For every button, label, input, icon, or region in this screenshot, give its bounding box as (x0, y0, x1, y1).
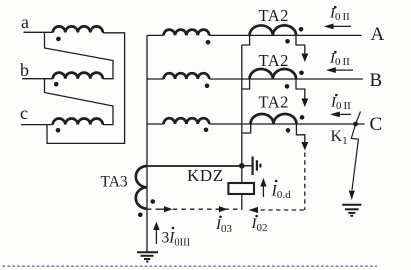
polarity dot winding C (204, 128, 209, 133)
ground TA3 neutral (137, 251, 158, 253)
wire phase b input (22, 78, 53, 80)
wire star stub B (147, 78, 164, 80)
wire KDZ top lead (241, 166, 243, 182)
polarity dot TA3 secondary (138, 213, 143, 218)
wire dashed right bus down (304, 153, 306, 211)
svg-text:C: C (370, 114, 383, 135)
wire delta link c to winding a right end (47, 33, 125, 144)
dot above I0II-A (334, 6, 337, 9)
svg-text:I0II: I0II (329, 51, 350, 69)
dot above 3I0III I (172, 227, 175, 230)
polarity dot winding c (56, 128, 61, 133)
page separator dotted line (3, 265, 378, 267)
CT TA2 phase B primary (250, 69, 297, 79)
wire phase a input (24, 31, 53, 33)
polarity dot winding B (205, 84, 210, 89)
wire line A (209, 34, 361, 36)
wire delta link a to winding b right end (45, 32, 114, 78)
polarity dot winding a (56, 37, 61, 42)
wire line C (209, 123, 364, 125)
node K1 fault dot on line C (353, 122, 358, 127)
wire TA2-C secondary right stub (296, 124, 304, 143)
winding A (star) (164, 30, 210, 36)
wire TA2 secondary left bus (241, 45, 243, 166)
arrow I0II-B left (334, 69, 353, 71)
arrow I0.d up beside KDZ (262, 186, 264, 198)
relay KDZ coil rectangle (228, 183, 254, 194)
wire TA2-B secondary left (242, 79, 250, 89)
wire dashed TA3 to KDZ (i03 path) (147, 208, 241, 210)
wire line B (209, 78, 363, 80)
dot above i02 I (255, 215, 258, 218)
wire star neutral vertical (146, 35, 148, 252)
wire star stub C (147, 123, 164, 125)
wire KDZ bottom lead (241, 195, 243, 211)
dot above i03 I (219, 216, 222, 219)
svg-text:TA2: TA2 (259, 51, 289, 70)
arrow I0II-A left (332, 25, 351, 27)
wire delta link b to winding c right end (45, 79, 114, 125)
polarity dot TA2-C secondary (286, 128, 291, 133)
svg-text:b: b (20, 60, 29, 80)
arrow i03 current right near TA3 (160, 208, 166, 210)
svg-text:I0.d: I0.d (271, 183, 292, 202)
wire K1 fault path to ground (351, 124, 358, 190)
polarity dot TA2-B secondary (285, 84, 290, 89)
arrow 3I0III up (155, 229, 157, 244)
winding c (delta) (53, 119, 103, 125)
svg-text:B: B (370, 70, 383, 91)
winding a (delta) (53, 26, 103, 32)
junction dot KDZ top (239, 163, 245, 169)
wire TA2-A secondary right stub (296, 35, 305, 54)
ground sideways at KDZ top (244, 165, 252, 167)
wire phase c input (21, 124, 53, 126)
wire K1 blade above line (356, 112, 361, 125)
svg-text:I03: I03 (215, 217, 233, 235)
svg-text:I0II: I0II (329, 6, 350, 24)
svg-text:K1: K1 (331, 128, 348, 147)
svg-text:3I0III: 3I0III (162, 230, 191, 249)
svg-text:c: c (20, 103, 28, 123)
arrow TA2-A secondary current down (301, 54, 308, 63)
wire TA2-A secondary left (242, 35, 250, 45)
svg-text:TA2: TA2 (259, 6, 289, 25)
svg-text:TA3: TA3 (101, 174, 128, 191)
polarity dot winding b (54, 82, 59, 87)
arrow i03 current right near KDZ (216, 208, 221, 210)
ground K1 (342, 204, 361, 206)
svg-text:TA2: TA2 (259, 93, 289, 112)
polarity dot TA2-B primary (299, 71, 304, 76)
arrow TA2-C secondary current down (301, 142, 308, 151)
wire TA2-C secondary left (242, 124, 251, 133)
polarity dot winding A (206, 40, 211, 45)
arrow I0II-C left (338, 113, 351, 115)
arrow TA2-B secondary current down (301, 99, 308, 108)
arrow fault current down (349, 191, 355, 201)
wire dashed bottom return (i02 path) (261, 209, 305, 211)
svg-text:I02: I02 (251, 216, 268, 234)
wire TA3 neutral to KDZ top (147, 165, 242, 167)
svg-text:a: a (21, 12, 29, 32)
arrow i02 current left (249, 207, 259, 213)
CT TA2 phase C primary (251, 114, 297, 124)
svg-text:KDZ: KDZ (187, 166, 224, 185)
winding B (star) (164, 73, 210, 79)
winding b (delta) (53, 73, 103, 79)
dot above I0II-C (335, 94, 338, 97)
CT TA3 on neutral (136, 166, 147, 209)
polarity dot TA2-A primary (299, 27, 304, 32)
svg-text:I0II: I0II (330, 95, 351, 113)
wire TA2-B secondary right stub (296, 79, 305, 100)
dot above I0II-B (334, 51, 337, 54)
svg-text:A: A (371, 24, 385, 45)
dot above I0.d (275, 180, 278, 183)
polarity dot TA2-A secondary (285, 39, 290, 44)
winding C (star) (164, 118, 210, 124)
polarity dot TA3 primary (151, 199, 156, 204)
CT TA2 phase A primary (250, 25, 297, 35)
polarity dot TA2-C primary (300, 115, 305, 120)
wire star stub A (147, 34, 164, 36)
